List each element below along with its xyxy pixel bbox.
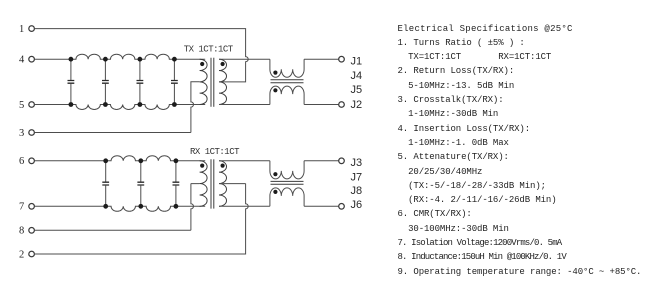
pin 6 terminal — [19, 156, 34, 167]
wire TX top rail to transformer primary — [174, 58, 205, 60]
svg-text:8: 8 — [19, 226, 24, 237]
electrical specifications text panel — [398, 22, 642, 279]
inductor RX top rail — [106, 156, 141, 161]
pin 2 terminal — [19, 249, 34, 260]
wire RX secondary center tap to pin 2 (hop over bottom wire) — [34, 184, 248, 254]
junction RX bottom rail node — [103, 204, 108, 209]
wire TX secondary center tap to pin 1 (hop over top wire) — [34, 29, 248, 82]
junction RX top rail node — [138, 158, 143, 163]
wire choke to J2 — [304, 104, 339, 106]
svg-text:J4: J4 — [351, 70, 363, 82]
junction RX bottom rail node — [174, 204, 179, 209]
wire choke to J6 — [304, 205, 339, 207]
svg-text:6: 6 — [19, 156, 24, 167]
svg-text:RX 1CT:1CT: RX 1CT:1CT — [190, 147, 240, 157]
wire choke to J3 — [304, 160, 339, 162]
wire choke to J1 — [304, 58, 339, 60]
svg-text:4: 4 — [19, 55, 25, 66]
transformer RX secondary polarity dot — [221, 164, 225, 168]
junction RX bottom rail node — [138, 204, 143, 209]
wire TX secondary top to choke — [219, 58, 270, 60]
svg-text:J3: J3 — [351, 157, 363, 169]
svg-text:1: 1 — [19, 24, 24, 35]
wire RX bottom rail to transformer primary — [176, 205, 205, 207]
pin 1 terminal — [19, 24, 34, 35]
junction TX bottom rail node — [138, 102, 143, 107]
junction TX top rail node — [172, 57, 177, 62]
wire RX top rail to transformer primary — [176, 160, 205, 162]
junction TX bottom rail node — [69, 102, 74, 107]
inductor TX top rail — [140, 54, 175, 59]
inductor RX bottom rail — [141, 206, 176, 211]
label J4 — [351, 70, 363, 82]
transformer RX core — [211, 159, 214, 208]
inductor RX bottom rail — [106, 206, 141, 211]
pin 8 terminal — [19, 226, 34, 237]
common-mode choke RX top polarity dot — [273, 172, 277, 176]
wire pin 5 to TX ladder bottom rail — [34, 104, 71, 106]
label J2 — [351, 99, 363, 111]
transformer TX primary polarity dot — [200, 62, 204, 66]
inductor TX bottom rail — [105, 105, 140, 110]
junction TX bottom rail node — [172, 102, 177, 107]
wire RX secondary bottom to choke — [219, 205, 270, 207]
transformer TX primary winding — [200, 59, 208, 104]
junction TX top rail node — [103, 57, 108, 62]
capacitor TX ladder — [68, 59, 75, 104]
svg-text:J6: J6 — [351, 199, 363, 211]
junction TX top rail node — [69, 57, 74, 62]
svg-text:J2: J2 — [351, 99, 363, 111]
junction TX top rail node — [138, 57, 143, 62]
inductor TX bottom rail — [71, 105, 106, 110]
label TX 1CT:1CT — [184, 45, 234, 55]
terminal J3 — [339, 158, 345, 164]
wire RX primary center tap to pin 8 (hop over bottom rail) — [34, 184, 199, 231]
capacitor TX ladder — [171, 59, 178, 104]
common-mode choke RX bottom winding — [270, 188, 304, 206]
label J5 — [351, 84, 363, 96]
pin 3 terminal — [19, 128, 34, 139]
common-mode choke TX core — [271, 80, 304, 83]
pin 7 terminal — [19, 202, 34, 213]
svg-text:5: 5 — [19, 100, 24, 111]
capacitor RX ladder — [137, 161, 144, 207]
capacitor RX ladder — [102, 161, 109, 207]
common-mode choke RX bottom polarity dot — [273, 190, 277, 194]
transformer TX secondary polarity dot — [221, 62, 225, 66]
common-mode choke TX bottom polarity dot — [273, 88, 277, 92]
inductor TX bottom rail — [140, 105, 175, 110]
transformer RX secondary winding — [219, 161, 227, 207]
label J1 — [351, 55, 363, 67]
svg-text:3: 3 — [19, 128, 24, 139]
pin 5 terminal — [19, 100, 34, 111]
svg-text:J1: J1 — [351, 55, 363, 67]
wire TX bottom rail to transformer primary — [174, 104, 205, 106]
inductor TX top rail — [71, 54, 106, 59]
transformer RX primary polarity dot — [200, 164, 204, 168]
label J8 — [351, 185, 363, 197]
label J6 — [351, 199, 363, 211]
capacitor RX ladder — [173, 161, 180, 207]
wire TX secondary bottom to choke — [219, 104, 270, 106]
inductor RX top rail — [141, 156, 176, 161]
svg-text:7: 7 — [19, 202, 24, 213]
label J7 — [351, 171, 363, 183]
junction TX bottom rail node — [103, 102, 108, 107]
junction RX top rail node — [103, 158, 108, 163]
capacitor TX ladder — [137, 59, 144, 104]
common-mode choke RX core — [271, 181, 304, 184]
common-mode choke TX bottom winding — [270, 86, 304, 104]
svg-text:2: 2 — [19, 249, 24, 260]
svg-text:J5: J5 — [351, 84, 363, 96]
svg-text:J8: J8 — [351, 185, 363, 197]
wire pin 6 to RX ladder top rail — [34, 160, 105, 162]
svg-text:TX 1CT:1CT: TX 1CT:1CT — [184, 45, 234, 55]
wire pin 4 to TX ladder top rail — [34, 58, 71, 60]
pin 4 terminal — [19, 55, 34, 66]
label RX 1CT:1CT — [190, 147, 240, 157]
transformer RX primary winding — [200, 161, 208, 207]
junction RX top rail node — [174, 158, 179, 163]
terminal J2 — [339, 102, 345, 108]
wire pin 7 to RX ladder bottom rail — [34, 205, 105, 207]
wire RX secondary top to choke — [219, 160, 270, 162]
capacitor TX ladder — [102, 59, 109, 104]
label J3 — [351, 157, 363, 169]
transformer TX core — [211, 58, 214, 107]
common-mode choke TX top polarity dot — [273, 71, 277, 75]
common-mode choke TX top winding — [270, 59, 304, 77]
terminal J6 — [339, 204, 345, 210]
svg-text:J7: J7 — [351, 171, 363, 183]
transformer TX secondary winding — [219, 59, 227, 104]
wire TX primary center tap to pin 3 (hop over bottom rail) — [34, 82, 199, 133]
common-mode choke RX top winding — [270, 161, 304, 179]
terminal J1 — [339, 56, 345, 62]
inductor TX top rail — [105, 54, 140, 59]
